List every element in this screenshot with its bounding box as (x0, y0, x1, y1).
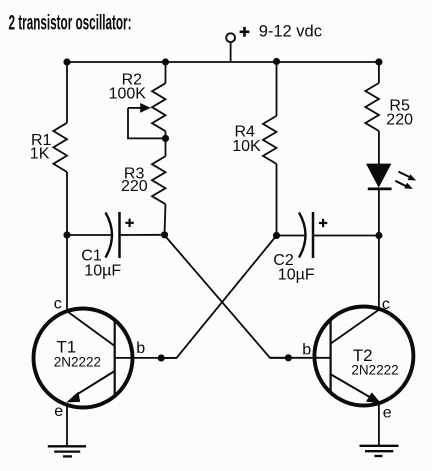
wire power stub (230, 43, 232, 63)
wire C2 right plate to node D (313, 235, 379, 237)
C2 curved plate (299, 213, 306, 258)
node B dot (R3/C1) (161, 231, 168, 238)
T1 base bar (114, 320, 116, 396)
node C dot (R4/C2) (273, 232, 280, 239)
wire T1 emitter to ground (66, 405, 68, 447)
T1 collector line (67, 311, 115, 346)
wire bus to R4 top (276, 62, 278, 116)
svg-text:e: e (54, 403, 63, 420)
ground T1 (48, 446, 86, 456)
wire T2 base horizontal (270, 357, 331, 359)
label c T1 (54, 296, 62, 313)
wire R1 bottom to node A (66, 172, 68, 235)
node D dot (C2/LED/T2c) (375, 232, 382, 239)
resistor R2 (pot) (152, 83, 166, 131)
capacitor C2 (277, 212, 379, 258)
label C2 10uF (273, 252, 315, 284)
ground T2 (360, 446, 399, 456)
node bus junction dot 4 (375, 58, 382, 65)
svg-text:9-12 vdc: 9-12 vdc (259, 23, 322, 41)
label c T2 (382, 296, 390, 313)
node bus junction dot 2 (162, 58, 169, 65)
svg-text:10K: 10K (232, 138, 261, 155)
label b T2 (302, 342, 311, 359)
wire bus to R2 top (165, 62, 167, 83)
LED D1 triangle (366, 164, 391, 188)
capacitor C1 (67, 212, 165, 258)
svg-text:10µF: 10µF (278, 266, 315, 283)
wire LED cathode to node D (378, 189, 380, 236)
svg-text:1K: 1K (30, 145, 50, 162)
node bus junction dot 1 (63, 58, 70, 65)
wire node C to C2 left plate (277, 235, 305, 237)
label T2 2N2222 (351, 346, 398, 378)
label R5 220 (386, 97, 413, 128)
svg-text:2 transistor oscillator:: 2 transistor oscillator: (9, 9, 132, 34)
label R1 1K (30, 132, 52, 162)
wire top supply bus (67, 61, 379, 63)
svg-text:b: b (136, 340, 145, 357)
resistor R1 (53, 123, 67, 172)
label R2 100K (109, 72, 147, 103)
svg-text:c: c (382, 296, 390, 313)
LED cathode bar (368, 187, 392, 190)
svg-text:100K: 100K (109, 86, 147, 103)
label R3 220 (121, 166, 148, 196)
wire wiper loop (128, 108, 166, 138)
pot wiper arrow (128, 103, 151, 113)
C1 plus sign (125, 222, 133, 224)
wire T2 emitter to ground (378, 403, 380, 446)
T1 emitter line (74, 371, 115, 396)
title text (9, 9, 132, 34)
LED light arrows (395, 172, 416, 189)
wire T1 base horizontal (115, 357, 177, 359)
transistor T1 internals (66, 311, 114, 402)
svg-text:c: c (54, 296, 62, 313)
label T1 2N2222 (54, 337, 101, 369)
C1 curved plate (106, 213, 113, 258)
C2 plus sign (319, 222, 327, 224)
T2 collector line (331, 310, 380, 344)
node R2/R3 junction dot (162, 135, 169, 142)
T2 emitter arrowhead (366, 392, 381, 403)
T2 base bar (330, 319, 332, 395)
svg-text:b: b (302, 342, 311, 359)
wire node A down to T1 collector (66, 235, 68, 312)
wire left vertical upper (bus to R1) (66, 62, 68, 123)
wire C1 right plate to node B (120, 234, 165, 236)
svg-text:220: 220 (386, 111, 413, 128)
node T1 base dot (158, 354, 165, 361)
wire R5 bottom to LED anode (378, 131, 380, 164)
transistor T2 internals (331, 310, 381, 404)
wire cross-coupling node C to T1 base (161, 236, 276, 359)
node bus junction dot 3 (273, 58, 280, 65)
svg-text:e: e (383, 404, 392, 421)
label e T2 (383, 404, 392, 421)
label 9-12 vdc (259, 23, 322, 41)
label e T1 (54, 403, 63, 420)
wire node D down to T2 collector (378, 236, 380, 310)
wire bus to R5 top (378, 62, 380, 83)
resistor R3 (152, 156, 166, 204)
resistor R5 (365, 83, 379, 131)
wire R2 bottom to R3 top (165, 131, 167, 156)
node A dot (R1/C1/T1c) (63, 231, 70, 238)
C2 straight plate (312, 212, 315, 258)
node T2 base dot (285, 354, 292, 361)
wire R4 bottom to node C (276, 164, 278, 236)
svg-text:220: 220 (121, 178, 148, 195)
plus sign power (240, 27, 250, 37)
svg-text:2N2222: 2N2222 (351, 363, 398, 378)
transistor T2 circle (314, 307, 413, 406)
label b T1 (136, 340, 145, 357)
C1 straight plate (118, 212, 121, 258)
wire R3 bottom to node B (165, 204, 166, 235)
label C1 10uF (81, 247, 121, 279)
label R4 10K (232, 123, 261, 155)
wire cross-coupling node B to T2 base (164, 235, 289, 358)
resistor R4 (263, 116, 277, 164)
T2 emitter line (331, 374, 372, 398)
transistor T1 circle (34, 309, 133, 408)
svg-text:10µF: 10µF (84, 262, 121, 279)
wire node A to C1 left plate (67, 234, 111, 236)
T1 emitter arrowhead (66, 392, 80, 403)
power terminal circle (226, 33, 235, 42)
svg-text:2N2222: 2N2222 (54, 354, 101, 369)
